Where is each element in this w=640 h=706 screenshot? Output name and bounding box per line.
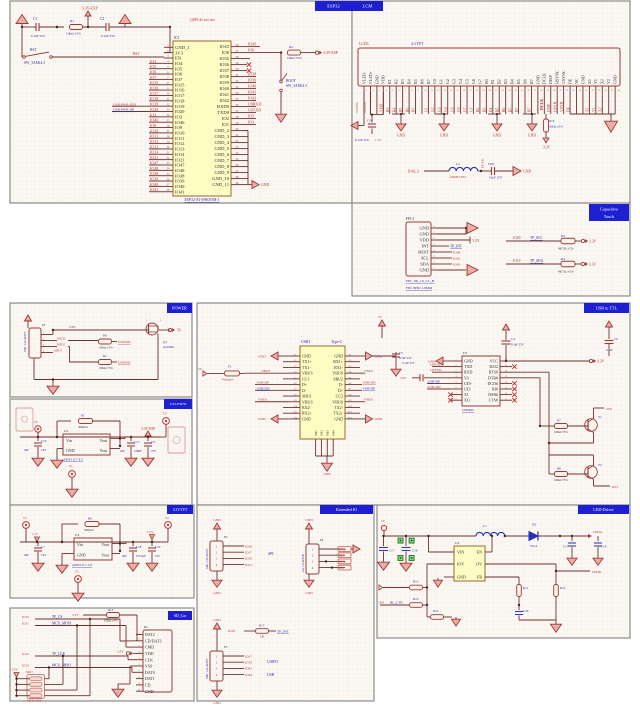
svg-text:SD_Car: SD_Car bbox=[174, 614, 187, 618]
svg-text:TP_INT: TP_INT bbox=[277, 630, 290, 634]
svg-text:USB-DN: USB-DN bbox=[257, 386, 271, 390]
svg-text:IO17: IO17 bbox=[150, 91, 158, 96]
svg-text:R3: R3 bbox=[386, 107, 390, 112]
svg-text:GND: GND bbox=[419, 232, 429, 237]
svg-text:GND: GND bbox=[523, 170, 531, 174]
svg-text:IO37: IO37 bbox=[220, 68, 230, 73]
svg-text:T1: T1 bbox=[69, 464, 73, 468]
svg-text:MIC?: MIC? bbox=[26, 670, 34, 674]
svg-text:GND: GND bbox=[613, 75, 618, 84]
svg-text:VIN: VIN bbox=[457, 550, 464, 555]
svg-text:VCC: VCC bbox=[490, 359, 499, 364]
svg-text:IO46: IO46 bbox=[150, 118, 158, 123]
svg-text:C17: C17 bbox=[134, 440, 140, 444]
svg-text:IO46: IO46 bbox=[175, 120, 185, 125]
svg-text:P3: P3 bbox=[224, 535, 228, 539]
svg-text:C15: C15 bbox=[563, 545, 569, 549]
svg-text:4uF: 4uF bbox=[122, 554, 127, 558]
svg-text:CH340C: CH340C bbox=[462, 408, 475, 412]
svg-text:Y1: Y1 bbox=[593, 79, 598, 84]
svg-text:IO39: IO39 bbox=[220, 80, 230, 85]
svg-text:FPC_8P_1.0_CL_B: FPC_8P_1.0_CL_B bbox=[406, 279, 435, 283]
svg-text:SBU1: SBU1 bbox=[302, 394, 312, 399]
svg-text:RX2+: RX2+ bbox=[302, 411, 313, 416]
svg-text:T1: T1 bbox=[598, 415, 602, 419]
svg-text:GND: GND bbox=[440, 134, 448, 138]
svg-text:4uF: 4uF bbox=[137, 449, 142, 453]
svg-text:GND: GND bbox=[334, 354, 343, 359]
svg-text:IO11: IO11 bbox=[175, 136, 185, 141]
svg-text:RX1-: RX1- bbox=[334, 365, 344, 370]
svg-text:GND: GND bbox=[305, 518, 313, 522]
svg-text:DCD#: DCD# bbox=[488, 381, 498, 386]
svg-text:B3: B3 bbox=[483, 107, 487, 112]
svg-text:D-: D- bbox=[339, 382, 344, 387]
svg-text:25V: 25V bbox=[151, 449, 157, 453]
svg-text:Ext 1.0-4PWB: Ext 1.0-4PWB bbox=[301, 554, 305, 572]
svg-text:SH1: SH1 bbox=[314, 430, 318, 436]
svg-text:GND_9: GND_9 bbox=[214, 170, 229, 175]
svg-text:TX2+: TX2+ bbox=[333, 411, 343, 416]
svg-text:R3: R3 bbox=[561, 234, 565, 238]
svg-text:IO18: IO18 bbox=[228, 629, 235, 633]
svg-text:IO42_3: IO42_3 bbox=[408, 170, 419, 174]
svg-text:Vout: Vout bbox=[100, 438, 108, 443]
svg-text:TP31: TP31 bbox=[488, 162, 495, 166]
svg-text:R7: R7 bbox=[412, 107, 416, 112]
svg-text:LED-Driver: LED-Driver bbox=[593, 507, 614, 512]
svg-text:16V: 16V bbox=[41, 553, 47, 557]
svg-text:IO6: IO6 bbox=[379, 601, 384, 605]
svg-text:XI: XI bbox=[464, 392, 469, 397]
svg-text:IO8: IO8 bbox=[339, 566, 344, 570]
svg-text:1.7V: 1.7V bbox=[32, 532, 39, 536]
svg-text:IO7: IO7 bbox=[175, 77, 183, 82]
svg-text:FB: FB bbox=[477, 575, 482, 580]
svg-text:U3: U3 bbox=[75, 533, 79, 537]
svg-text:D+: D+ bbox=[302, 382, 308, 387]
svg-text:IO18: IO18 bbox=[175, 98, 185, 103]
svg-text:C6: C6 bbox=[614, 337, 618, 341]
svg-text:C5: C5 bbox=[399, 351, 403, 355]
svg-text:BOOT: BOOT bbox=[286, 79, 297, 83]
svg-text:FPC 8PIN 1.0MM: FPC 8PIN 1.0MM bbox=[406, 286, 433, 290]
svg-text:VSYNC: VSYNC bbox=[561, 70, 566, 84]
svg-text:B1: B1 bbox=[490, 79, 495, 84]
svg-text:IO42: IO42 bbox=[220, 98, 230, 103]
svg-text:IO41: IO41 bbox=[150, 187, 158, 192]
svg-text:VSS: VSS bbox=[145, 664, 152, 669]
svg-text:GND: GND bbox=[302, 416, 311, 421]
svg-text:CC2: CC2 bbox=[336, 394, 343, 399]
svg-text:U2: U2 bbox=[64, 429, 68, 433]
svg-text:G2: G2 bbox=[431, 107, 435, 112]
svg-text:R5: R5 bbox=[81, 414, 85, 418]
svg-text:G7: G7 bbox=[470, 107, 474, 112]
svg-text:IO20: IO20 bbox=[175, 109, 185, 114]
svg-text:DE: DE bbox=[567, 78, 572, 84]
svg-text:IO41: IO41 bbox=[220, 92, 230, 97]
svg-text:B4: B4 bbox=[489, 107, 493, 112]
svg-text:0.1uF 25V: 0.1uF 25V bbox=[355, 138, 370, 142]
svg-text:OV: OV bbox=[476, 562, 482, 567]
svg-text:3.3V: 3.3V bbox=[11, 668, 18, 672]
svg-text:G4: G4 bbox=[444, 107, 448, 112]
svg-text:GND_5: GND_5 bbox=[214, 146, 229, 151]
svg-text:VBC: VBC bbox=[69, 325, 77, 329]
svg-text:IO1: IO1 bbox=[248, 120, 254, 125]
svg-text:C9: C9 bbox=[151, 440, 155, 444]
svg-text:P5: P5 bbox=[224, 645, 228, 649]
svg-text:R10: R10 bbox=[413, 597, 419, 601]
svg-text:SDA: SDA bbox=[420, 262, 430, 267]
svg-text:R4: R4 bbox=[561, 257, 565, 261]
svg-text:IO41: IO41 bbox=[175, 189, 185, 194]
svg-text:B7: B7 bbox=[515, 107, 519, 112]
svg-text:POWER: POWER bbox=[172, 306, 187, 311]
svg-text:GND: GND bbox=[535, 75, 540, 84]
svg-text:TP_INT: TP_INT bbox=[450, 245, 463, 249]
svg-text:DSR#: DSR# bbox=[488, 392, 498, 397]
svg-text:U0TXD: U0TXD bbox=[430, 368, 442, 372]
svg-text:MICV: MICV bbox=[54, 349, 63, 353]
svg-text:VLED-: VLED- bbox=[361, 71, 366, 84]
svg-text:VDD: VDD bbox=[145, 651, 154, 656]
svg-text:GND_2: GND_2 bbox=[214, 128, 229, 133]
svg-text:GND: GND bbox=[302, 354, 311, 359]
svg-text:F1: F1 bbox=[228, 365, 232, 369]
svg-text:C16: C16 bbox=[41, 439, 47, 443]
svg-text:DTR#: DTR# bbox=[488, 375, 498, 380]
svg-text:TX1+: TX1+ bbox=[302, 359, 312, 364]
svg-text:IO19: IO19 bbox=[453, 262, 460, 266]
svg-text:U0TXD: U0TXD bbox=[248, 108, 261, 113]
svg-text:IO11: IO11 bbox=[22, 622, 29, 626]
svg-text:IO48: IO48 bbox=[150, 166, 158, 171]
svg-text:GND_6: GND_6 bbox=[214, 152, 229, 157]
svg-text:IO39: IO39 bbox=[175, 179, 185, 184]
svg-text:DAT1: DAT1 bbox=[145, 676, 155, 681]
svg-text:IO38: IO38 bbox=[175, 173, 185, 178]
svg-text:TP_SCL: TP_SCL bbox=[530, 236, 543, 240]
svg-text:IO17: IO17 bbox=[175, 93, 185, 98]
svg-text:GND_1: GND_1 bbox=[175, 45, 190, 50]
svg-text:IO13: IO13 bbox=[175, 147, 185, 152]
svg-text:IO40: IO40 bbox=[220, 86, 230, 91]
svg-text:R232: R232 bbox=[489, 364, 498, 369]
svg-text:GND_4: GND_4 bbox=[214, 140, 229, 145]
svg-text:L2: L2 bbox=[456, 162, 460, 166]
svg-text:IO2: IO2 bbox=[248, 114, 254, 119]
svg-text:C16: C16 bbox=[601, 545, 607, 549]
svg-text:B2: B2 bbox=[476, 107, 480, 112]
svg-text:Capacitive: Capacitive bbox=[600, 207, 618, 212]
svg-text:5V: 5V bbox=[198, 367, 203, 371]
svg-text:R16: R16 bbox=[549, 119, 555, 123]
svg-text:IO16: IO16 bbox=[175, 88, 185, 93]
svg-text:CMD: CMD bbox=[145, 645, 154, 650]
svg-text:R5: R5 bbox=[399, 107, 403, 112]
svg-text:VSYN: VSYN bbox=[560, 101, 564, 112]
svg-text:EN: EN bbox=[175, 56, 182, 61]
svg-text:5V: 5V bbox=[34, 420, 39, 424]
svg-text:0.1uF 25V: 0.1uF 25V bbox=[31, 34, 46, 38]
svg-text:LCM: LCM bbox=[363, 4, 373, 9]
svg-text:R6: R6 bbox=[419, 79, 424, 84]
svg-text:IO15: IO15 bbox=[150, 80, 158, 85]
svg-text:IO5: IO5 bbox=[150, 64, 156, 69]
svg-text:USB1: USB1 bbox=[301, 340, 310, 344]
svg-text:TXD: TXD bbox=[464, 364, 472, 369]
svg-text:USB: USB bbox=[267, 673, 275, 677]
svg-text:GND: GND bbox=[375, 417, 383, 421]
svg-text:SH2: SH2 bbox=[320, 430, 324, 436]
svg-text:IO18: IO18 bbox=[150, 96, 158, 101]
svg-text:R7: R7 bbox=[557, 419, 561, 423]
svg-text:IO21: IO21 bbox=[245, 563, 252, 567]
svg-text:LEDA: LEDA bbox=[593, 530, 603, 534]
svg-text:IO36: IO36 bbox=[220, 62, 230, 67]
svg-text:CLK: CLK bbox=[145, 657, 153, 662]
svg-text:GND: GND bbox=[334, 416, 343, 421]
svg-text:UD-: UD- bbox=[464, 387, 472, 392]
svg-text:IO38: IO38 bbox=[150, 171, 158, 176]
svg-text:R2: R2 bbox=[289, 45, 293, 49]
svg-text:4uF: 4uF bbox=[141, 554, 146, 558]
svg-text:4uF: 4uF bbox=[24, 448, 29, 452]
svg-text:GND: GND bbox=[419, 268, 429, 273]
svg-text:GND: GND bbox=[464, 359, 473, 364]
svg-text:IO16: IO16 bbox=[150, 86, 158, 91]
svg-text:R5: R5 bbox=[413, 79, 418, 84]
svg-text:IO48: IO48 bbox=[175, 168, 185, 173]
svg-text:C19: C19 bbox=[155, 545, 161, 549]
svg-text:GND: GND bbox=[397, 134, 405, 138]
svg-text:IO11: IO11 bbox=[150, 134, 158, 139]
svg-text:3.3V-TFT: 3.3V-TFT bbox=[173, 508, 188, 512]
svg-text:B6: B6 bbox=[522, 79, 527, 84]
svg-text:0.1uF 25V: 0.1uF 25V bbox=[399, 356, 413, 360]
svg-text:IOV: IOV bbox=[457, 562, 464, 567]
svg-text:C18: C18 bbox=[412, 549, 418, 553]
svg-text:3V3: 3V3 bbox=[175, 50, 184, 55]
svg-text:G5: G5 bbox=[450, 107, 454, 112]
svg-text:3.3V: 3.3V bbox=[117, 650, 124, 654]
svg-text:GND_10: GND_10 bbox=[212, 176, 230, 181]
svg-text:D-: D- bbox=[302, 388, 307, 393]
svg-text:GND: GND bbox=[457, 575, 466, 580]
svg-text:T5: T5 bbox=[75, 570, 79, 574]
svg-text:10KΩ ±5%: 10KΩ ±5% bbox=[554, 430, 568, 434]
svg-text:C1: C1 bbox=[33, 17, 37, 21]
svg-text:IO38: IO38 bbox=[248, 72, 256, 77]
svg-text:4.3 TFT: 4.3 TFT bbox=[411, 42, 424, 46]
svg-text:HSYN: HSYN bbox=[553, 101, 557, 112]
svg-text:VBUS: VBUS bbox=[258, 398, 267, 402]
svg-text:LEDK: LEDK bbox=[592, 570, 602, 574]
svg-text:GND: GND bbox=[66, 448, 75, 453]
svg-text:B0: B0 bbox=[484, 79, 489, 84]
svg-text:IO14: IO14 bbox=[150, 150, 158, 155]
svg-text:IO39: IO39 bbox=[150, 176, 158, 181]
svg-text:SBU2: SBU2 bbox=[333, 376, 343, 381]
svg-text:MIC 1.25-4PWT: MIC 1.25-4PWT bbox=[23, 331, 27, 352]
svg-text:USB-PWR-DNI: USB-PWR-DNI bbox=[113, 102, 137, 106]
svg-text:IO45: IO45 bbox=[248, 42, 256, 47]
svg-text:IO1: IO1 bbox=[222, 122, 230, 127]
svg-text:GND: GND bbox=[323, 472, 331, 476]
svg-text:4K7Ω ±5%: 4K7Ω ±5% bbox=[558, 247, 574, 251]
svg-text:IO6: IO6 bbox=[175, 72, 183, 77]
svg-text:IO17: IO17 bbox=[245, 551, 252, 555]
svg-text:B2: B2 bbox=[497, 79, 502, 84]
svg-text:MCU_MISO: MCU_MISO bbox=[52, 664, 71, 668]
svg-text:IO3: IO3 bbox=[339, 554, 344, 558]
svg-text:CD/DAT3: CD/DAT3 bbox=[145, 638, 161, 643]
svg-text:R11: R11 bbox=[523, 586, 529, 590]
svg-text:IO4: IO4 bbox=[150, 59, 156, 64]
svg-text:3.3V-ESP32: 3.3V-ESP32 bbox=[170, 402, 187, 406]
svg-text:0.1uF 25V: 0.1uF 25V bbox=[511, 343, 525, 347]
svg-text:IO12: IO12 bbox=[175, 141, 185, 146]
svg-text:P2: P2 bbox=[144, 625, 148, 629]
svg-text:VDD: VDD bbox=[419, 238, 429, 243]
svg-text:IO46: IO46 bbox=[339, 560, 346, 564]
svg-text:VBUS: VBUS bbox=[302, 399, 313, 404]
svg-text:IO5: IO5 bbox=[175, 66, 183, 71]
svg-text:VDD: VDD bbox=[381, 75, 386, 84]
svg-text:R7: R7 bbox=[426, 79, 431, 84]
svg-text:G7: G7 bbox=[463, 107, 467, 112]
svg-text:AO3401: AO3401 bbox=[163, 345, 175, 349]
svg-text:IO9: IO9 bbox=[175, 125, 183, 130]
svg-text:X2: X2 bbox=[600, 79, 605, 84]
svg-text:G6: G6 bbox=[471, 79, 476, 84]
svg-text:G3: G3 bbox=[452, 79, 457, 84]
svg-text:IO3: IO3 bbox=[175, 114, 183, 119]
svg-text:10KΩ ±5%: 10KΩ ±5% bbox=[554, 478, 568, 482]
svg-text:C24: C24 bbox=[367, 119, 373, 123]
svg-text:Vin: Vin bbox=[77, 542, 83, 547]
svg-text:SMD_4Pin: SMD_4Pin bbox=[27, 699, 42, 703]
svg-text:IO40: IO40 bbox=[150, 182, 158, 187]
svg-text:G2: G2 bbox=[445, 79, 450, 84]
svg-text:B4: B4 bbox=[510, 79, 515, 84]
svg-text:SH4: SH4 bbox=[331, 430, 335, 436]
svg-text:GND: GND bbox=[305, 591, 313, 595]
svg-text:50KΩ%: 50KΩ% bbox=[78, 425, 88, 429]
svg-text:VLEDK: VLEDK bbox=[355, 102, 359, 113]
svg-text:Y1: Y1 bbox=[592, 107, 596, 112]
svg-text:L1: L1 bbox=[483, 524, 487, 528]
svg-text:B7: B7 bbox=[508, 107, 512, 112]
svg-text:G1: G1 bbox=[439, 79, 444, 84]
svg-text:T2: T2 bbox=[598, 463, 602, 467]
svg-text:3.3V: 3.3V bbox=[543, 146, 550, 150]
svg-text:VBUS: VBUS bbox=[332, 371, 343, 376]
svg-text:3.3V: 3.3V bbox=[72, 613, 79, 617]
svg-text:U0RXD: U0RXD bbox=[248, 102, 261, 107]
svg-text:10KΩ ±5%: 10KΩ ±5% bbox=[99, 366, 113, 370]
svg-text:REST: REST bbox=[418, 250, 429, 255]
svg-text:10kΩ ±5%: 10kΩ ±5% bbox=[66, 32, 81, 36]
svg-text:USB33D: USB33D bbox=[118, 361, 131, 365]
svg-text:C4: C4 bbox=[511, 337, 515, 341]
svg-text:B3: B3 bbox=[503, 79, 508, 84]
svg-text:3.3V: 3.3V bbox=[473, 239, 480, 243]
svg-text:IO15: IO15 bbox=[175, 82, 185, 87]
svg-text:ESP32: ESP32 bbox=[327, 4, 340, 9]
svg-text:V3: V3 bbox=[464, 375, 469, 380]
svg-text:IO3: IO3 bbox=[150, 112, 156, 117]
svg-text:SW_3AEK4.3: SW_3AEK4.3 bbox=[24, 61, 45, 65]
svg-text:Polymer: Polymer bbox=[222, 378, 234, 382]
svg-text:CC1: CC1 bbox=[302, 376, 309, 381]
svg-text:MICG: MICG bbox=[57, 343, 66, 347]
svg-text:Vout: Vout bbox=[100, 448, 108, 453]
svg-text:G4: G4 bbox=[458, 79, 463, 84]
svg-text:DISP: DISP bbox=[547, 104, 551, 112]
svg-text:NC: NC bbox=[574, 78, 579, 84]
svg-text:USB-DP: USB-DP bbox=[363, 386, 376, 390]
svg-text:SCL: SCL bbox=[421, 256, 429, 261]
svg-text:4uF: 4uF bbox=[120, 449, 125, 453]
svg-text:G6: G6 bbox=[457, 107, 461, 112]
svg-text:U0RXD: U0RXD bbox=[430, 363, 442, 367]
svg-text:R4: R4 bbox=[392, 107, 396, 112]
svg-text:3.3V: 3.3V bbox=[589, 240, 596, 244]
svg-text:AMS1117-3.3: AMS1117-3.3 bbox=[63, 458, 83, 462]
svg-text:SH3: SH3 bbox=[326, 430, 330, 436]
svg-text:IO19: IO19 bbox=[513, 259, 521, 263]
svg-text:IO6: IO6 bbox=[150, 69, 156, 74]
svg-text:R9: R9 bbox=[103, 334, 107, 338]
svg-text:IO19: IO19 bbox=[175, 104, 185, 109]
svg-text:SPI: SPI bbox=[268, 552, 274, 556]
svg-text:IO18: IO18 bbox=[245, 661, 252, 665]
svg-text:B5: B5 bbox=[495, 107, 499, 112]
svg-text:RST: RST bbox=[133, 52, 140, 56]
svg-text:Touch: Touch bbox=[604, 214, 615, 219]
svg-text:RX1+: RX1+ bbox=[333, 359, 344, 364]
svg-text:IO39: IO39 bbox=[248, 78, 256, 83]
svg-text:25V: 25V bbox=[155, 554, 161, 558]
svg-text:IO16: IO16 bbox=[245, 544, 252, 548]
svg-text:G3: G3 bbox=[437, 107, 441, 112]
svg-text:IO19: IO19 bbox=[150, 102, 158, 107]
svg-text:D2: D2 bbox=[532, 523, 536, 527]
svg-text:C17: C17 bbox=[389, 549, 395, 553]
svg-text:1.7V: 1.7V bbox=[147, 530, 154, 534]
svg-text:R17: R17 bbox=[259, 624, 265, 628]
svg-text:Extended IO: Extended IO bbox=[336, 507, 357, 512]
svg-text:5V: 5V bbox=[378, 315, 383, 319]
svg-text:IO13: IO13 bbox=[22, 664, 29, 668]
svg-text:C20: C20 bbox=[523, 609, 529, 613]
svg-text:USB-DN: USB-DN bbox=[363, 381, 377, 385]
svg-text:IO47: IO47 bbox=[175, 163, 185, 168]
svg-text:USB-DP: USB-DP bbox=[257, 381, 270, 385]
svg-text:VBUS: VBUS bbox=[364, 369, 373, 373]
svg-text:Vout: Vout bbox=[102, 553, 110, 558]
svg-text:X2: X2 bbox=[598, 107, 602, 112]
svg-text:GND: GND bbox=[145, 689, 154, 694]
svg-text:IO45: IO45 bbox=[220, 44, 230, 49]
svg-text:RST: RST bbox=[30, 48, 37, 52]
svg-text:IO20: IO20 bbox=[453, 256, 460, 260]
svg-text:0.1uF: 0.1uF bbox=[606, 348, 613, 352]
svg-text:G5: G5 bbox=[464, 79, 469, 84]
